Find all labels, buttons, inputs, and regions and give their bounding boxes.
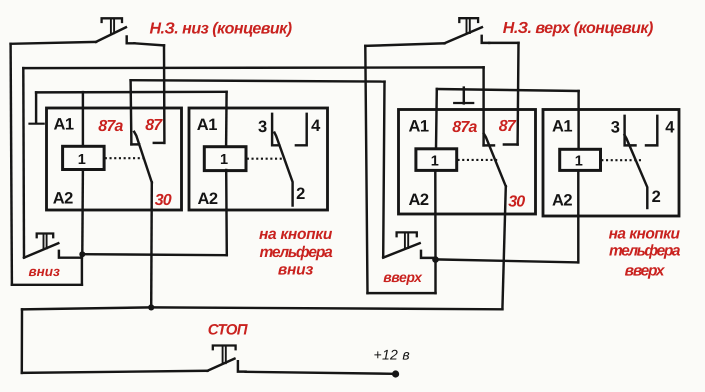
relay K1 coil box bbox=[63, 146, 105, 169]
wire right bypass riser to node A2-right bbox=[434, 260, 436, 294]
svg-text:4: 4 bbox=[311, 117, 321, 135]
wire SQ1 to relay K1 pin 87 bbox=[134, 43, 164, 45]
svg-text:4: 4 bbox=[665, 118, 675, 136]
wire A2 bus right (K3.A2 to K4.A2) bbox=[436, 259, 579, 262]
wire left bypass vertical (limit-low left to bottom) bbox=[11, 44, 12, 285]
svg-text:A1: A1 bbox=[409, 118, 429, 136]
svg-text:A1: A1 bbox=[552, 118, 572, 136]
limit switch SQ2 fixed terminal bbox=[482, 36, 490, 43]
svg-text:A1: A1 bbox=[54, 115, 74, 133]
svg-text:1: 1 bbox=[575, 154, 583, 170]
svg-text:3: 3 bbox=[258, 118, 267, 136]
svg-text:30: 30 bbox=[508, 194, 525, 211]
terminal stub left drop bbox=[35, 92, 37, 123]
wire long bus L5 (вниз contact to K3 87a) bbox=[23, 66, 483, 69]
wire bypass riser to node A2-left bbox=[81, 254, 83, 285]
push button SB1 (вниз) moving contact bbox=[24, 243, 58, 258]
wire bottom lead to STOP button bbox=[22, 371, 208, 373]
wire вниз button feed vertical bbox=[22, 68, 25, 257]
wire bus L7 (K1 87a to вверх contact) bbox=[131, 80, 385, 81]
svg-text:на кнопки: на кнопки bbox=[259, 226, 333, 243]
svg-text:1: 1 bbox=[431, 154, 439, 170]
push button SB3 plunger bar bbox=[213, 346, 236, 350]
wire K4 coil A1 lead bbox=[577, 91, 579, 149]
wire K2 coil A1 riser bbox=[225, 92, 228, 147]
relay K4 coil box bbox=[560, 149, 601, 170]
wire bypass bottom horizontal bbox=[12, 284, 82, 286]
wire A1 bus right (K3.A1 to K4.A1) bbox=[437, 89, 579, 91]
svg-text:30: 30 bbox=[155, 192, 172, 209]
svg-text:вверх: вверх bbox=[625, 263, 666, 280]
terminal stub left bar bbox=[30, 123, 44, 125]
relay K3 coupling dotted line bbox=[458, 159, 499, 161]
svg-text:1: 1 bbox=[78, 152, 86, 168]
svg-text:+12 в: +12 в bbox=[374, 347, 410, 363]
svg-text:87: 87 bbox=[499, 118, 517, 135]
K4 terminal 4 bbox=[646, 116, 657, 145]
relay K1 moving contact 30-87a bbox=[134, 132, 152, 183]
wire right bypass bottom horizontal bbox=[368, 292, 436, 294]
svg-text:A2: A2 bbox=[198, 190, 218, 208]
junction dot 30/stop bus bbox=[148, 304, 154, 310]
limit switch SQ1 plunger stem bbox=[111, 20, 114, 34]
svg-text:3: 3 bbox=[611, 118, 620, 136]
relay K2 outline bbox=[189, 108, 328, 210]
svg-text:вверх: вверх bbox=[383, 269, 423, 285]
wire limit-high left lead bbox=[365, 43, 444, 46]
svg-text:A2: A2 bbox=[53, 189, 73, 207]
svg-text:Н.З. верх (концевик): Н.З. верх (концевик) bbox=[503, 20, 653, 37]
wire right bypass vertical (limit-high left to bottom) bbox=[365, 46, 367, 293]
svg-text:вниз: вниз bbox=[29, 264, 61, 279]
limit switch SQ1 (Н.З. низ) moving contact bbox=[96, 27, 126, 42]
svg-text:СТОП: СТОП bbox=[208, 321, 249, 338]
svg-text:2: 2 bbox=[652, 188, 661, 206]
svg-text:A1: A1 bbox=[197, 116, 217, 134]
push button SB2 plunger bar bbox=[397, 232, 417, 236]
K2 terminal 4 bbox=[296, 114, 307, 146]
svg-text:A2: A2 bbox=[409, 191, 429, 209]
relay K4 outline bbox=[543, 110, 679, 217]
wire A1 bus left (stub to K1.A1 to K2.A1) bbox=[36, 91, 227, 94]
wire K1 pin 87 drop bbox=[163, 45, 166, 142]
push button SB2 (вверх) moving contact bbox=[383, 243, 420, 257]
wire K3 pin 30 drop to bottom bus bbox=[502, 186, 505, 309]
push button SB2 plunger stem bbox=[405, 234, 408, 249]
relay K1 coupling dotted line bbox=[105, 157, 146, 159]
push button SB3 fixed terminal bbox=[238, 361, 246, 371]
svg-text:тельфера: тельфера bbox=[609, 243, 681, 260]
node +12V dot bbox=[392, 370, 399, 377]
wire вверх button feed vertical bbox=[383, 82, 384, 258]
wire K3 coil A1 lead bbox=[435, 89, 438, 149]
wire K1 coil A1 lead bbox=[82, 92, 84, 146]
wire K4 coil A2 riser bbox=[577, 171, 579, 263]
K3 terminal 87 foot bbox=[504, 143, 518, 145]
wire K3 coil A2 lead bbox=[434, 170, 437, 259]
wire limit-low left lead bbox=[11, 42, 96, 44]
limit switch SQ2 plunger bar bbox=[459, 18, 478, 22]
terminal stub right drop bbox=[463, 88, 465, 104]
K1 terminal 87 foot bbox=[154, 142, 164, 144]
K2 terminal 3 bbox=[272, 114, 279, 146]
relay K3 coil box bbox=[416, 149, 457, 171]
push button SB1 plunger bar bbox=[37, 234, 54, 238]
push button SB1 plunger stem bbox=[44, 235, 47, 249]
svg-text:тельфера: тельфера bbox=[259, 244, 333, 261]
limit switch SQ1 fixed terminal bbox=[127, 37, 135, 44]
svg-text:2: 2 bbox=[296, 185, 305, 203]
svg-text:на кнопки: на кнопки bbox=[609, 225, 681, 242]
svg-text:87: 87 bbox=[145, 117, 163, 134]
limit switch SQ1 plunger bar bbox=[102, 18, 122, 22]
wire K1 coil A2 lead bbox=[81, 170, 84, 255]
relay K1 outline bbox=[47, 108, 182, 210]
svg-text:Н.З. низ (концевик): Н.З. низ (концевик) bbox=[150, 20, 292, 37]
junction dot node A2-left bbox=[79, 251, 85, 257]
wire K3 pin 87a drop from bus L5 bbox=[482, 67, 484, 145]
junction dot node A2-right bbox=[432, 256, 439, 263]
wire bottom stop bus bbox=[22, 307, 502, 309]
limit switch SQ2 plunger stem bbox=[467, 19, 470, 33]
limit switch SQ2 (Н.З. верх) moving contact bbox=[445, 27, 482, 43]
push button SB3 (СТОП) moving contact bbox=[208, 359, 235, 371]
wire stop bus left drop bbox=[21, 309, 24, 373]
svg-text:вниз: вниз bbox=[278, 262, 314, 279]
terminal stub right bar bbox=[454, 102, 473, 104]
relay K3 outline bbox=[399, 110, 536, 215]
wire SQ2 to relay K3 pin 87 bbox=[489, 42, 518, 44]
wire K2 coil A2 riser bbox=[225, 170, 228, 255]
svg-text:1: 1 bbox=[220, 152, 228, 168]
K4 terminal 3 bbox=[625, 116, 636, 145]
push button SB3 plunger stem bbox=[223, 347, 226, 364]
wire K3 pin 87 drop bbox=[516, 43, 519, 145]
svg-text:87a: 87a bbox=[452, 119, 477, 136]
svg-text:A2: A2 bbox=[552, 192, 572, 210]
K3 terminal 87a foot bbox=[484, 144, 494, 146]
relay K3 moving contact 30-87a bbox=[484, 134, 506, 187]
relay K4 moving contact bbox=[625, 135, 648, 208]
relay K2 coupling dotted line bbox=[247, 158, 283, 160]
svg-text:87a: 87a bbox=[98, 118, 123, 135]
wire K1 pin 30 drop to bottom bus bbox=[150, 182, 153, 307]
wire to +12V bbox=[246, 372, 393, 374]
K1 terminal 87a foot bbox=[131, 143, 139, 145]
push button SB1 fixed terminal bbox=[59, 251, 82, 258]
relay K4 coupling dotted line bbox=[601, 159, 641, 161]
wire A2 bus left (K1.A2 to K2.A2) bbox=[82, 254, 227, 255]
push button SB2 fixed terminal bbox=[421, 251, 436, 258]
relay K2 moving contact bbox=[275, 133, 293, 206]
wire K1 pin 87a drop bbox=[129, 80, 132, 144]
relay K2 coil box bbox=[204, 147, 246, 171]
